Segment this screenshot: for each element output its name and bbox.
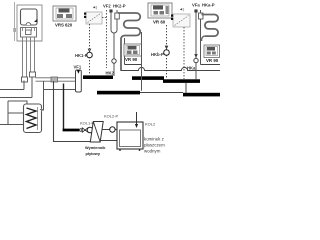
svg-text:HK1-P: HK1-P [75,53,88,58]
sensor KOL2 arrow [136,112,138,124]
dashed link mixer to VF2 [102,17,107,19]
svg-text:HKa: HKa [187,66,196,71]
boiler stubs [23,28,35,32]
svg-text:wodnym: wodnym [144,149,161,154]
svg-text:HK2: HK2 [106,71,115,76]
boiler inner rounded body [21,9,38,25]
tank coil [27,108,37,129]
svg-text:VR 90: VR 90 [206,58,219,63]
mixer HKa terminals [171,15,173,17]
circuit2 pipe loop [111,10,117,33]
VR 90 box #2 [204,45,220,58]
svg-text:Wymiennik: Wymiennik [85,145,106,150]
VR 60 box #1 [148,3,172,18]
left pipe union [22,77,28,82]
flue line left of boiler [14,2,16,41]
HKb-P pump [164,50,170,56]
separator return line [44,89,76,91]
svg-text:kominek z: kominek z [144,137,164,142]
sensor VF2 mark [110,10,113,13]
svg-text:VF2: VF2 [103,4,111,9]
svg-text:HKa-P: HKa-P [202,3,215,8]
hydraulic separator [76,70,82,92]
lower pipe exchanger-fireplace [101,140,118,142]
mixer HKa diagonal [175,16,189,26]
line y64.5 [125,64,142,66]
fireplace supply drop [63,84,65,130]
circuit a pump rect [199,13,204,19]
return main thin link [140,92,183,94]
floor coil HKa [202,15,219,37]
plate heat exchanger [90,122,103,143]
svg-text:płaszczem: płaszczem [144,143,165,148]
svg-text:◄): ◄) [179,7,185,12]
svg-text:KOL2-P: KOL2-P [104,114,119,119]
circuit a pipe left [195,10,197,79]
tank coil bottom line [0,124,24,126]
casing bottom edge [17,40,42,42]
circuit a junction circle [194,58,198,62]
return main bar segB [183,93,220,97]
tank top line [8,101,27,105]
boiler right pipe (double line) [31,37,35,72]
flow main bar seg3 [163,79,200,83]
pump KOL1-P [87,127,93,133]
HK1-P pump [87,52,93,58]
burner inner rect [26,30,32,35]
boiler pump bump [26,23,31,25]
boiler flag mark [34,19,38,23]
fireplace return drop [54,81,92,142]
pump KOL2-P [110,127,115,132]
mixer HKa box [173,14,190,27]
svg-text:VF1: VF1 [74,65,82,70]
sensor VF1 mark [77,70,80,74]
circuit2 pump rect [115,13,120,19]
HKb-P check mark [165,46,167,49]
HK1-P check mark [88,49,90,52]
bowtie valve [82,128,88,132]
mixer HK2 diagonal [88,14,101,23]
flue connector tick [13,28,16,32]
fireplace supply thick pipe [63,129,79,132]
svg-text:VR 90: VR 90 [125,57,138,62]
storage tank [24,104,42,133]
tank right stub [40,108,43,112]
dashed control line at x107 [106,10,108,68]
coil tail 2 [124,38,126,65]
dashed control line HKb-P [166,25,168,79]
circuit2 junction circle [112,59,116,63]
boiler left pipe (double line) [23,37,27,77]
exchanger diagonal [93,122,100,143]
svg-text:HKb-P: HKb-P [151,52,164,57]
mixer HK2 terminals [84,13,86,15]
svg-text:VRS 620: VRS 620 [55,23,73,28]
flow main bar seg1 [83,75,113,79]
tank coil top line [8,112,24,114]
line y64.5 right [201,64,221,66]
mixer HK2 box [86,12,102,24]
small valve circle [79,129,82,132]
boiler casing [17,5,42,41]
svg-text:KOL2: KOL2 [145,122,156,127]
right pipe union [30,72,36,77]
svg-text:płytowy: płytowy [86,151,101,156]
flow main bar seg2 [132,76,164,80]
circuit2 drop pipe [113,33,115,76]
svg-text:HK2-P: HK2-P [113,4,126,9]
VR 90 box [124,44,142,56]
svg-text:VR 60: VR 60 [153,20,166,25]
dashed control line HK1-P [89,24,91,75]
line y70.5 with bumps [121,67,221,70]
circuit a check mark [195,55,197,57]
tank right riser [41,81,44,110]
serpentine return drop x141.5 [141,32,143,91]
vertical x186 [185,83,187,94]
dashed line below mixer HKa [183,27,185,79]
fireplace box [117,122,143,149]
coil a tail [202,36,205,41]
sensor VFa mark [195,10,198,13]
tank inner line [37,107,39,130]
tank left drop [7,101,9,125]
svg-text:VFa: VFa [192,3,200,8]
flow pipe coupler [51,77,58,82]
VRS 620 controller box [53,6,76,21]
boiler burner box [21,28,37,38]
pipe exchanger to pump KOL2-P [102,129,117,131]
boiler return line [0,81,24,90]
return main bar segA [97,91,140,95]
flow pipe to separator (double line) [36,78,76,81]
fireplace inner box [120,130,141,147]
svg-text:◄): ◄) [92,5,98,10]
boiler second line [0,77,32,98]
fireplace feet [120,149,140,151]
floor coil HK2 [118,13,140,71]
circuit a pipe right [200,10,202,65]
